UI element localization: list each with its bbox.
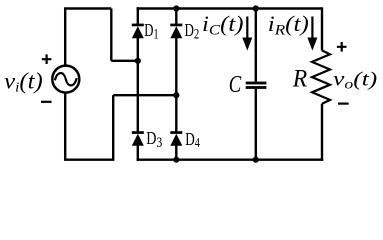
- wire top rail (bridge output + rail): [137, 7, 322, 9]
- svg-text:iR(t): iR(t): [268, 11, 309, 38]
- arrow iC current: [242, 17, 252, 51]
- source V1 (AC sinusoidal source): [52, 66, 79, 93]
- diode D3: [132, 131, 144, 146]
- svg-text:iC(t): iC(t): [202, 11, 244, 38]
- diode D2: [170, 24, 182, 39]
- wire left branch lower (D3 to bottom rail): [137, 145, 139, 161]
- wire right branch middle (D2 to D4): [175, 37, 177, 132]
- node B junction dot (source - to right branch midpoint): [173, 92, 179, 98]
- svg-text:C: C: [229, 71, 242, 98]
- diode D1: [132, 24, 144, 39]
- junction dot bottom rail / capacitor: [253, 157, 259, 163]
- junction dot bottom rail / right branch: [173, 157, 179, 163]
- svg-text:vo(t): vo(t): [333, 69, 377, 93]
- wire capacitor bottom lead: [255, 89, 257, 160]
- junction dot top rail / right branch: [173, 5, 179, 11]
- wire resistor top lead: [321, 7, 323, 50]
- wire left branch middle (D1 to D3): [137, 37, 139, 132]
- node A junction dot (source + to left branch midpoint): [135, 58, 141, 64]
- wire right branch upper (top rail to D2): [175, 7, 177, 25]
- resistor R1: [312, 51, 330, 104]
- junction dot top rail / capacitor: [253, 5, 259, 11]
- plus sign at output: [337, 42, 347, 52]
- svg-text:vi(t): vi(t): [4, 69, 43, 96]
- capacitor C1: [246, 82, 267, 89]
- wire source bottom path: [64, 92, 176, 161]
- wire left branch upper (top rail to D1): [137, 7, 139, 25]
- minus sign at source: [41, 101, 52, 103]
- plus sign at source: [42, 54, 52, 64]
- svg-text:R: R: [292, 65, 307, 92]
- wire right branch lower (D4 to bottom rail): [175, 145, 177, 160]
- arrow iR current: [307, 17, 317, 51]
- wire capacitor top lead: [255, 9, 257, 82]
- wire source top path: [64, 9, 137, 66]
- minus sign at output: [338, 102, 349, 104]
- wire bottom rail (bridge output - rail): [137, 158, 324, 160]
- wire resistor bottom lead: [321, 104, 323, 161]
- diode D4: [170, 131, 182, 146]
